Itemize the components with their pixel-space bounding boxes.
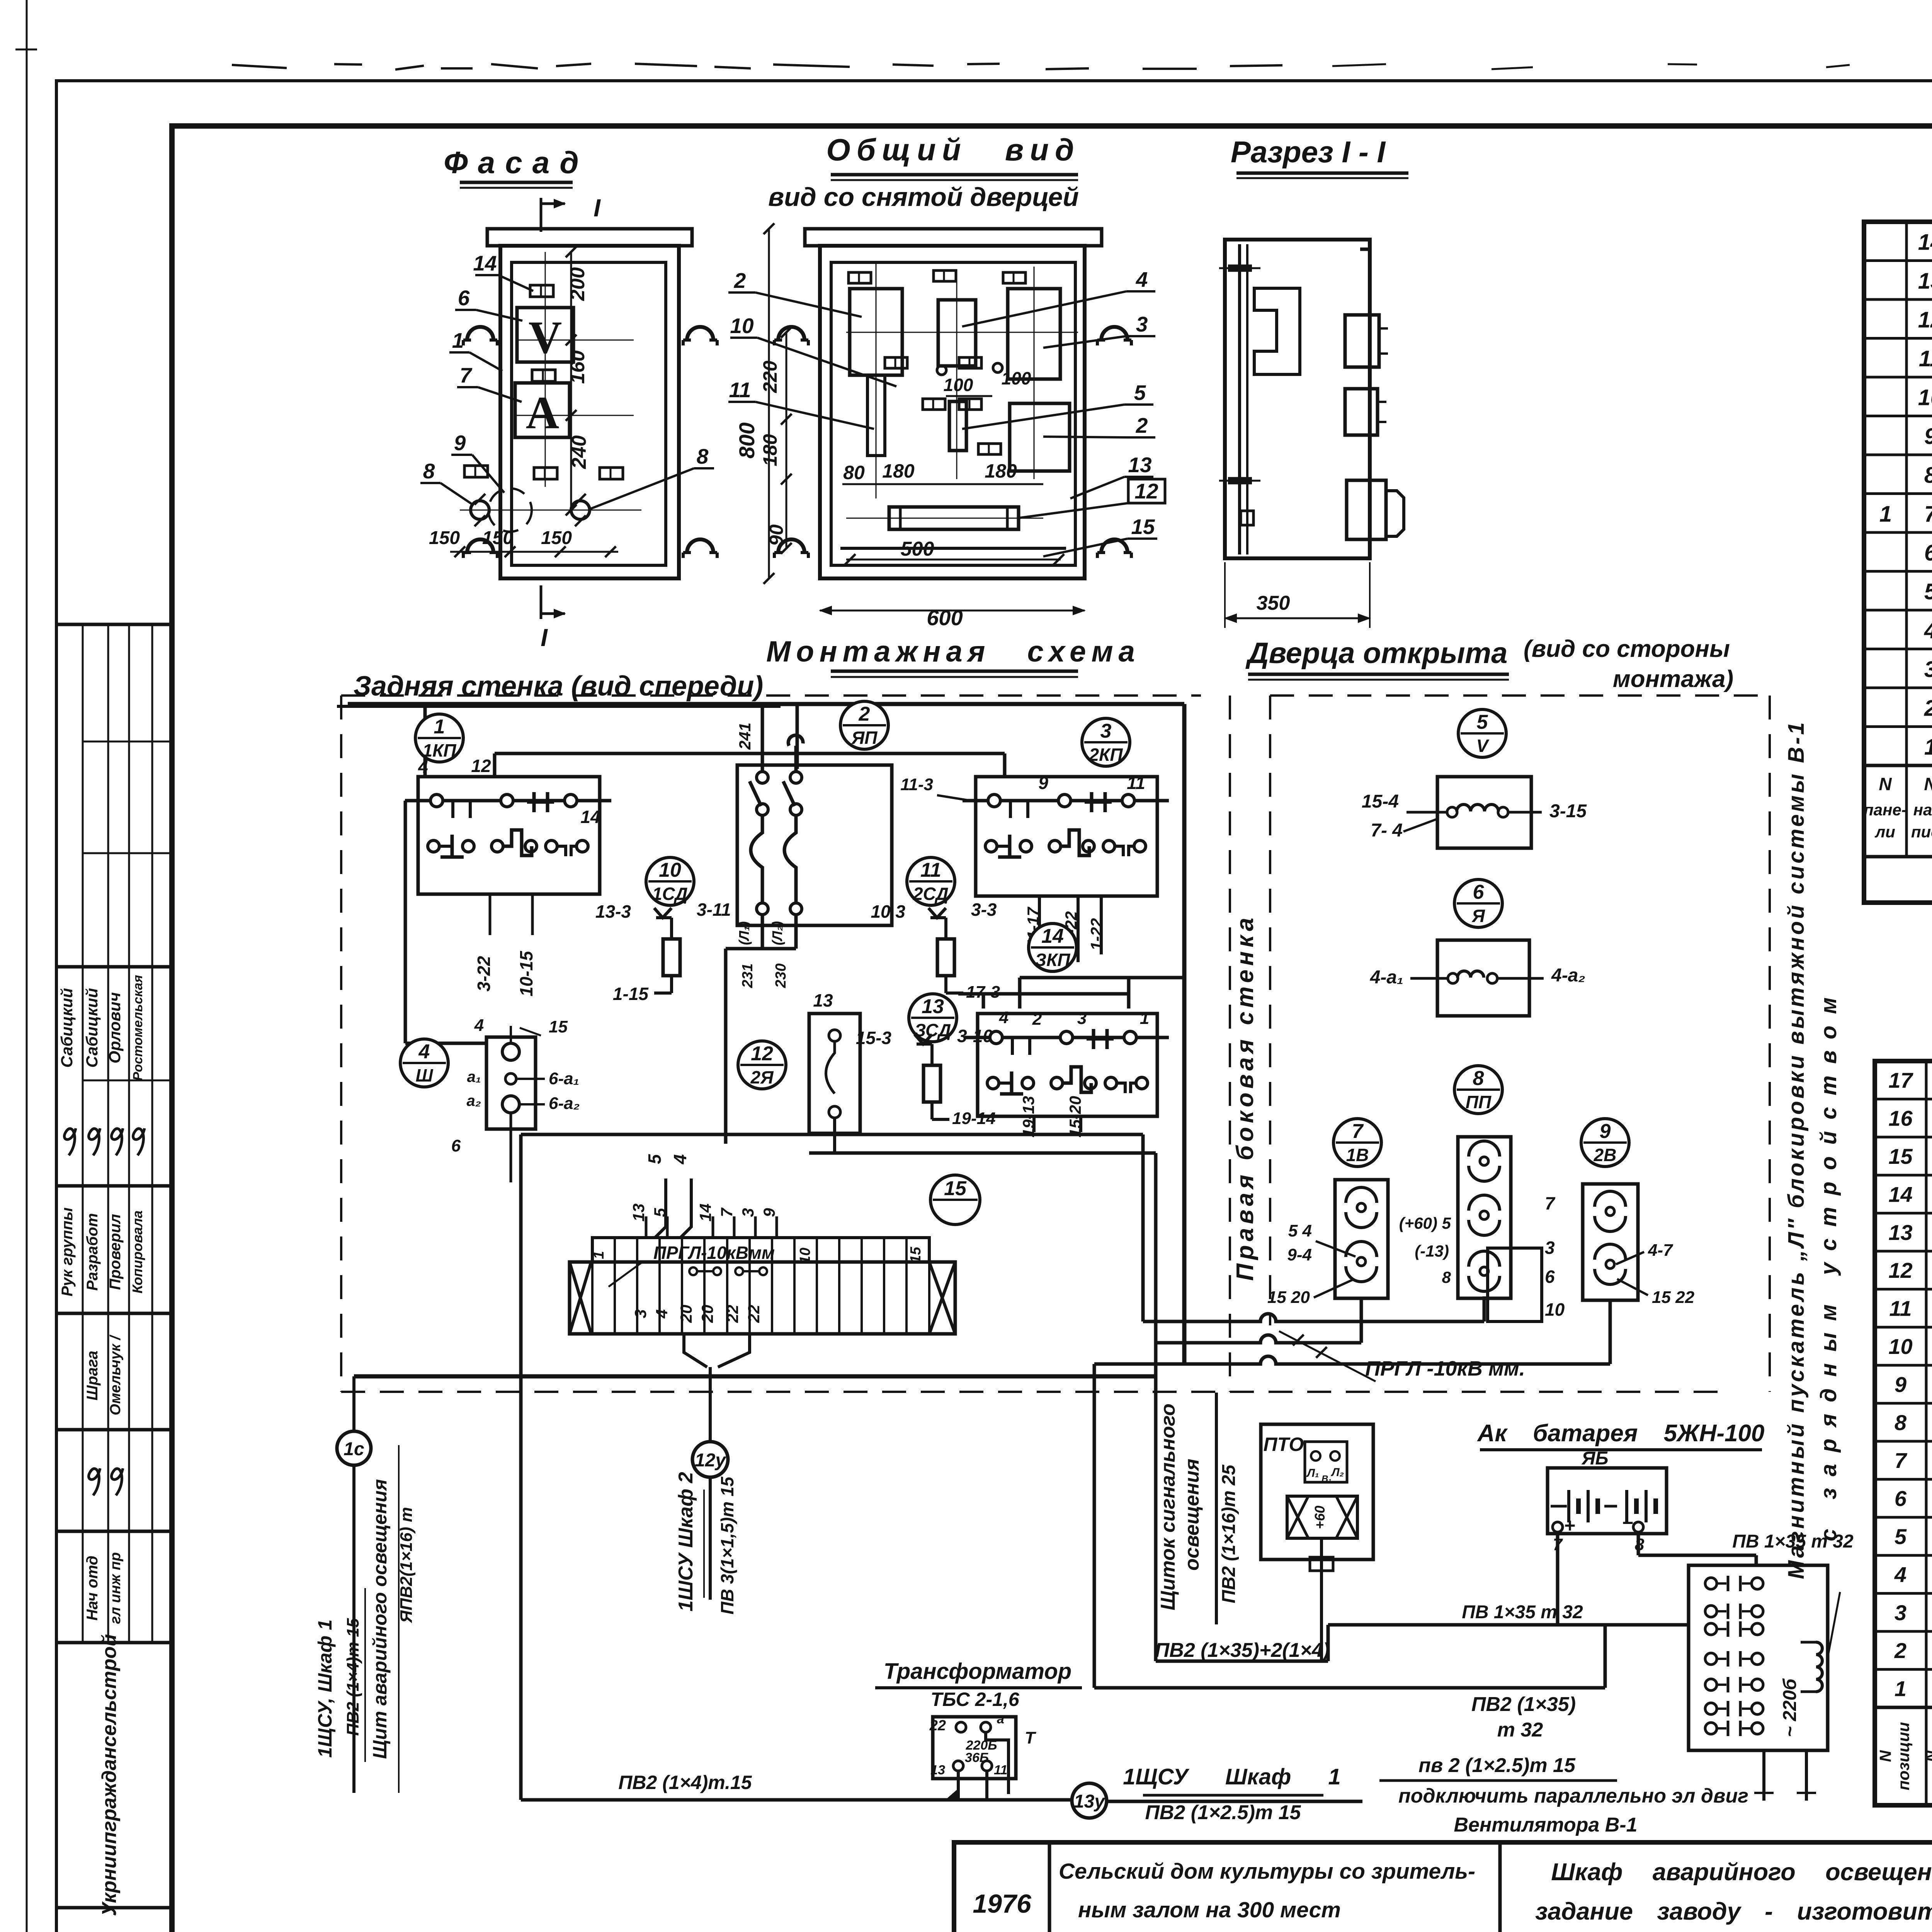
svg-text:2КП: 2КП [1089,745,1123,765]
svg-text:231: 231 [740,963,756,988]
svg-text:20: 20 [698,1305,716,1323]
svg-text:5: 5 [645,1154,665,1164]
svg-text:ПТО: ПТО [1264,1434,1304,1455]
svg-text:14: 14 [580,807,600,827]
svg-text:180: 180 [759,434,781,466]
svg-text:5: 5 [1477,711,1488,733]
svg-text:350: 350 [1257,592,1290,614]
svg-text:1: 1 [1895,1677,1906,1701]
svg-text:Орлович: Орлович [105,992,124,1064]
svg-text:11-3: 11-3 [900,775,933,794]
svg-text:1-15: 1-15 [613,984,649,1004]
svg-text:1: 1 [452,328,464,352]
svg-text:230: 230 [773,963,789,988]
svg-text:220: 220 [759,361,781,393]
svg-text:освещения: освещения [1181,1459,1203,1571]
svg-text:Разрез I - I: Разрез I - I [1231,135,1386,169]
svg-text:11: 11 [1889,1296,1912,1321]
svg-text:3: 3 [631,1309,650,1318]
svg-text:12: 12 [1134,479,1158,503]
svg-text:14: 14 [1918,230,1932,255]
svg-text:1: 1 [434,716,445,738]
svg-text:Шкаф аварийного освещения ШАО: Шкаф аварийного освещения ШАО [1551,1859,1932,1886]
svg-text:13у: 13у [1074,1791,1105,1812]
svg-text:с зарядным устройством: с зарядным устройством [1816,986,1841,1541]
svg-text:Фасад: Фасад [444,145,588,180]
svg-text:пане-: пане- [1864,801,1907,819]
svg-text:Омельчук /: Омельчук / [107,1335,124,1415]
svg-text:Дверца открыта: Дверца открыта [1245,637,1508,670]
svg-text:ТБС 2-1,6: ТБС 2-1,6 [930,1689,1019,1710]
svg-text:15: 15 [944,1177,967,1200]
svg-text:4-7: 4-7 [1648,1241,1673,1260]
svg-text:10: 10 [1918,385,1932,410]
svg-text:11: 11 [920,859,941,881]
svg-text:10 3: 10 3 [871,901,905,922]
svg-text:4: 4 [1924,618,1932,643]
svg-text:Сельский дом культуры со зрите: Сельский дом культуры со зритель- [1059,1859,1475,1884]
svg-text:Шрага: Шрага [84,1351,101,1401]
svg-text:Я: Я [1471,906,1485,926]
svg-text:Укрниипграждансельстрой: Укрниипграждансельстрой [98,1634,121,1916]
svg-text:I: I [541,624,548,651]
svg-text:160: 160 [566,350,589,384]
svg-text:2В: 2В [1594,1145,1617,1165]
svg-text:+60: +60 [1312,1505,1328,1529]
svg-text:13: 13 [1888,1220,1912,1245]
svg-text:ПВ2 (1×4)т 15: ПВ2 (1×4)т 15 [344,1618,362,1736]
svg-text:1: 1 [1879,502,1892,527]
svg-text:10-15: 10-15 [516,951,536,997]
svg-text:6-а₁: 6-а₁ [549,1069,579,1088]
svg-text:100: 100 [1002,368,1031,388]
svg-text:11: 11 [1919,346,1932,371]
svg-text:9-4: 9-4 [1287,1245,1312,1264]
svg-text:Сабицкий: Сабицкий [83,988,101,1068]
svg-text:Задняя стенка (вид спереди): Задняя стенка (вид спереди) [354,671,764,702]
svg-text:10: 10 [1888,1334,1912,1359]
svg-text:(Л₁): (Л₁) [736,921,752,945]
svg-text:1с: 1с [344,1439,364,1459]
svg-text:3: 3 [739,1208,757,1217]
svg-text:8: 8 [1924,463,1932,488]
svg-text:а₂: а₂ [467,1092,481,1109]
svg-text:над-: над- [1913,801,1932,819]
svg-text:Щит аварийного освещения: Щит аварийного освещения [369,1479,391,1759]
svg-text:20: 20 [677,1305,695,1323]
svg-text:4-а₂: 4-а₂ [1551,965,1585,986]
svg-text:150: 150 [482,528,513,548]
svg-text:600: 600 [927,605,963,630]
svg-text:В₁: В₁ [1321,1474,1332,1484]
svg-text:(-13): (-13) [1415,1242,1449,1260]
svg-text:12: 12 [471,756,491,776]
svg-text:15: 15 [549,1017,568,1036]
svg-text:4: 4 [1894,1562,1906,1587]
svg-text:500: 500 [901,538,934,560]
svg-text:ЯБ: ЯБ [1581,1448,1609,1469]
svg-text:8: 8 [1895,1410,1907,1435]
svg-text:11: 11 [994,1763,1007,1777]
svg-text:3: 3 [1895,1600,1906,1625]
svg-text:4: 4 [670,1154,690,1165]
svg-text:Магнитный пускатель „Л″ бло: Магнитный пускатель „Л″ блокировки вытяж… [1784,720,1809,1579]
svg-text:а: а [997,1712,1004,1726]
svg-text:~ 220б: ~ 220б [1780,1678,1800,1737]
svg-text:6: 6 [1473,881,1485,903]
svg-text:1: 1 [1924,735,1932,760]
svg-text:10: 10 [1545,1299,1565,1320]
svg-text:14: 14 [473,251,497,275]
svg-text:7: 7 [1352,1120,1364,1143]
svg-text:9: 9 [454,431,466,455]
svg-text:36Б: 36Б [965,1750,989,1765]
svg-text:6: 6 [458,286,470,310]
svg-text:5: 5 [1134,381,1146,405]
svg-text:1ЩСУ Шкаф 1: 1ЩСУ Шкаф 1 [1123,1764,1341,1789]
svg-text:12: 12 [751,1043,773,1065]
svg-text:200: 200 [566,267,589,301]
svg-text:8: 8 [423,459,435,483]
svg-text:13: 13 [930,1763,945,1777]
svg-text:15: 15 [1888,1144,1913,1168]
svg-text:5 4: 5 4 [1288,1221,1312,1240]
svg-text:22: 22 [723,1305,742,1323]
svg-text:6: 6 [1924,540,1932,565]
svg-text:подключить параллельно эл двиг: подключить параллельно эл двиг [1398,1785,1748,1807]
svg-text:−: − [1622,1512,1633,1534]
svg-text:Общий вид: Общий вид [826,133,1080,167]
svg-text:3-22: 3-22 [474,956,494,992]
svg-text:7: 7 [1545,1193,1556,1213]
svg-text:8: 8 [697,444,709,468]
svg-text:1ЩСУ, Шкаф 1: 1ЩСУ, Шкаф 1 [314,1619,336,1758]
svg-text:ПВ 3(1×1,5)т 15: ПВ 3(1×1,5)т 15 [717,1476,737,1614]
svg-text:9: 9 [1038,773,1048,793]
svg-text:13: 13 [1918,269,1932,294]
svg-text:ЗКП: ЗКП [1035,950,1071,970]
svg-text:15-4: 15-4 [1362,791,1399,812]
svg-text:180: 180 [882,460,915,482]
svg-text:Трансформатор: Трансформатор [884,1659,1071,1684]
svg-text:ПВ2 (1×35): ПВ2 (1×35) [1471,1693,1576,1716]
svg-text:14: 14 [696,1204,714,1222]
svg-text:5: 5 [1924,579,1932,604]
svg-text:15: 15 [908,1247,924,1263]
svg-text:3: 3 [1136,312,1148,336]
svg-text:10: 10 [730,314,754,338]
svg-text:Т: Т [1025,1728,1036,1747]
svg-text:4: 4 [474,1016,484,1035]
svg-text:ным залом на 300 мест: ным залом на 300 мест [1078,1898,1341,1922]
svg-text:1976: 1976 [973,1889,1031,1918]
svg-text:задание заводу - изготовителю: задание заводу - изготовителю [1535,1898,1932,1925]
svg-text:4: 4 [418,1041,430,1063]
svg-text:4: 4 [1136,267,1148,291]
svg-text:т 32: т 32 [1497,1719,1543,1741]
svg-text:Вентилятора В-1: Вентилятора В-1 [1454,1814,1637,1836]
svg-text:Копировала: Копировала [129,1211,145,1294]
svg-text:N: N [1924,774,1932,794]
svg-text:а₁: а₁ [467,1068,481,1085]
svg-text:5: 5 [1895,1524,1907,1549]
svg-text:13: 13 [922,995,944,1018]
svg-text:ЯП: ЯП [851,728,878,748]
svg-text:V: V [1476,736,1490,756]
svg-text:ПВ2 (1×2.5)т 15: ПВ2 (1×2.5)т 15 [1145,1801,1301,1824]
svg-text:13: 13 [629,1204,648,1222]
svg-text:ЯПВ2(1×16) т: ЯПВ2(1×16) т [397,1507,416,1623]
svg-text:позиции: позиции [1895,1722,1913,1791]
svg-text:7: 7 [1895,1448,1908,1473]
svg-text:4: 4 [418,757,428,777]
svg-text:Ак батарея 5ЖН-100: Ак батарея 5ЖН-100 [1477,1420,1765,1447]
svg-text:ли: ли [1874,823,1895,841]
svg-text:N: N [1879,774,1892,794]
svg-text:3: 3 [1545,1238,1555,1258]
svg-text:180: 180 [985,460,1017,482]
svg-text:6: 6 [1545,1267,1555,1287]
svg-text:Л₂: Л₂ [1331,1466,1344,1479]
svg-text:14: 14 [1041,925,1064,947]
svg-text:1СД: 1СД [652,884,688,904]
svg-text:ПВ2 (1×4)т.15: ПВ2 (1×4)т.15 [618,1772,752,1793]
svg-text:Ш: Ш [415,1065,433,1085]
svg-text:15 22: 15 22 [1652,1288,1695,1307]
svg-text:3-3: 3-3 [971,900,997,920]
svg-text:2: 2 [734,269,746,293]
svg-text:11: 11 [729,378,751,402]
svg-text:17-3: 17-3 [966,983,1000,1002]
svg-text:Рук группы: Рук группы [59,1207,76,1296]
svg-text:90: 90 [765,524,787,546]
svg-text:Монтажная схема: Монтажная схема [766,635,1140,668]
svg-text:(+60) 5: (+60) 5 [1399,1214,1451,1232]
svg-text:240: 240 [568,435,590,469]
svg-text:4-а₁: 4-а₁ [1370,967,1403,988]
svg-text:пв 2 (1×2.5)т 15: пв 2 (1×2.5)т 15 [1418,1754,1576,1777]
svg-text:писи: писи [1911,823,1932,841]
svg-text:8: 8 [1442,1268,1451,1286]
svg-text:ПВ2 (1×16)т 25: ПВ2 (1×16)т 25 [1219,1464,1239,1603]
svg-text:5: 5 [651,1208,669,1217]
svg-text:7: 7 [1924,502,1932,527]
svg-text:(вид со стороны: (вид со стороны [1524,636,1730,662]
svg-text:150: 150 [429,528,460,548]
svg-text:ПП: ПП [1466,1092,1492,1112]
svg-text:+: + [1564,1515,1575,1536]
svg-text:гл инж пр: гл инж пр [107,1552,124,1624]
svg-text:10: 10 [659,859,681,881]
svg-text:6-а₂: 6-а₂ [549,1094,580,1113]
svg-text:6: 6 [1895,1486,1907,1511]
svg-text:10: 10 [797,1248,813,1264]
svg-text:I: I [594,194,601,222]
svg-text:9: 9 [1600,1120,1611,1143]
svg-text:22: 22 [929,1718,946,1734]
svg-text:2: 2 [1032,1010,1042,1029]
svg-text:монтажа): монтажа) [1613,666,1733,692]
svg-text:ЗСД: ЗСД [915,1020,951,1040]
svg-text:13: 13 [813,990,833,1010]
svg-text:12у: 12у [695,1450,726,1471]
svg-text:A: A [526,387,560,438]
svg-text:9: 9 [1895,1372,1906,1396]
svg-text:ПРГЛ-10кВмм: ПРГЛ-10кВмм [653,1243,775,1263]
svg-text:9: 9 [760,1208,778,1217]
svg-text:2: 2 [1894,1638,1906,1663]
svg-text:2: 2 [1136,413,1148,437]
svg-text:3-11: 3-11 [697,900,731,920]
svg-text:241: 241 [736,723,754,750]
svg-text:1ШСУ Шкаф 2: 1ШСУ Шкаф 2 [675,1472,697,1611]
svg-text:19-14: 19-14 [952,1109,996,1128]
svg-text:ПВ2 (1×35)+2(1×4): ПВ2 (1×35)+2(1×4) [1155,1639,1330,1662]
svg-text:12: 12 [1888,1258,1912,1282]
svg-text:Правая боковая стенка: Правая боковая стенка [1232,914,1259,1281]
svg-text:Разработ: Разработ [84,1213,101,1291]
svg-text:вид со снятой дверцей: вид со снятой дверцей [768,182,1079,212]
svg-text:8: 8 [1473,1067,1484,1090]
svg-text:1: 1 [1140,1009,1149,1028]
svg-text:7: 7 [718,1207,736,1217]
svg-text:1: 1 [591,1251,607,1259]
svg-text:3: 3 [1924,657,1932,682]
svg-text:3: 3 [1077,1009,1087,1028]
svg-text:(Л₂): (Л₂) [769,921,785,945]
svg-text:7- 4: 7- 4 [1371,820,1403,841]
svg-text:2СД: 2СД [913,884,949,904]
svg-text:V: V [529,311,562,363]
svg-text:N: N [1876,1750,1895,1762]
svg-text:1В: 1В [1346,1145,1369,1165]
svg-text:ПРГЛ -10кВ мм.: ПРГЛ -10кВ мм. [1365,1357,1525,1380]
svg-text:9: 9 [1924,424,1932,449]
svg-text:Л₁: Л₁ [1306,1467,1319,1480]
svg-text:15: 15 [1131,515,1155,539]
svg-text:150: 150 [541,528,572,548]
svg-text:Нач отд: Нач отд [84,1556,101,1621]
svg-text:11: 11 [1127,773,1145,793]
svg-text:ПВ 1×35 т 32: ПВ 1×35 т 32 [1462,1602,1583,1622]
svg-text:16: 16 [1888,1106,1913,1131]
svg-text:100: 100 [944,375,973,395]
svg-text:12: 12 [1918,307,1932,332]
svg-text:Ростомельская: Ростомельская [131,975,145,1081]
svg-text:7: 7 [460,363,473,387]
svg-text:22: 22 [745,1305,763,1323]
svg-text:80: 80 [843,462,865,483]
svg-text:800: 800 [735,422,759,458]
svg-text:15 20: 15 20 [1267,1288,1310,1307]
svg-text:N: N [1922,1750,1932,1762]
svg-text:Сабицкий: Сабицкий [58,988,76,1068]
svg-text:3-15: 3-15 [1549,801,1587,821]
svg-text:2: 2 [1924,696,1932,721]
svg-text:4: 4 [999,1008,1009,1027]
svg-text:Проверил: Проверил [107,1214,124,1290]
svg-text:3: 3 [1100,720,1112,742]
svg-text:Щиток сигнального: Щиток сигнального [1157,1403,1179,1610]
svg-text:4: 4 [653,1309,671,1318]
svg-text:2Я: 2Я [750,1067,774,1087]
svg-text:6: 6 [451,1136,461,1155]
svg-text:13-3: 13-3 [595,901,631,922]
svg-text:13: 13 [1128,453,1151,477]
svg-text:2: 2 [859,703,870,725]
svg-text:14: 14 [1888,1182,1912,1206]
svg-text:17: 17 [1888,1068,1913,1092]
